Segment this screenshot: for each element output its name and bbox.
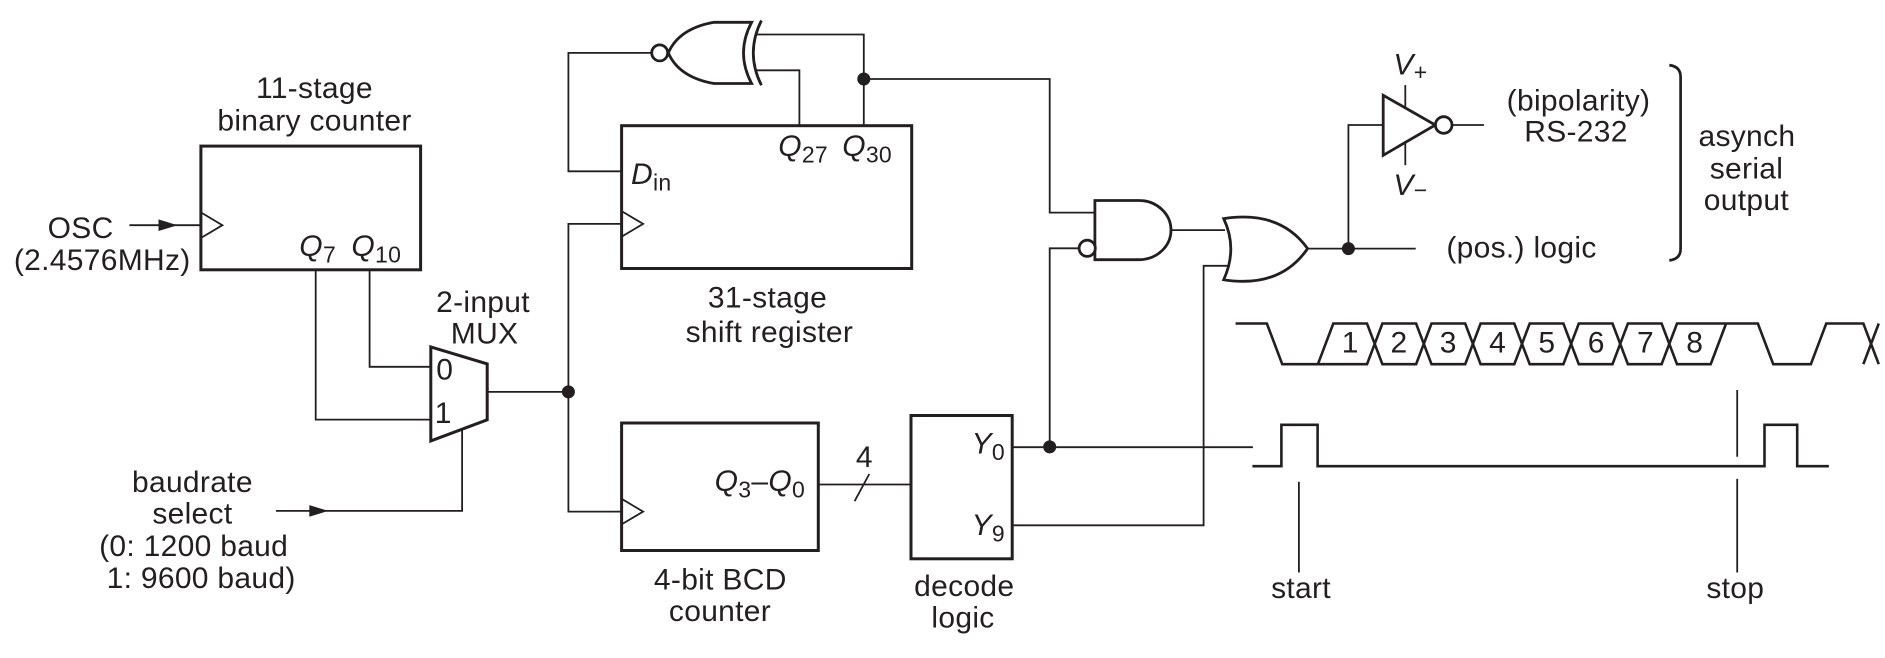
svg-text:RS-232: RS-232 bbox=[1524, 116, 1628, 149]
svg-text:logic: logic bbox=[931, 602, 994, 635]
svg-text:counter: counter bbox=[669, 595, 771, 628]
svg-text:decode: decode bbox=[914, 570, 1014, 603]
svg-text:1: 1 bbox=[435, 397, 452, 430]
svg-text:shift register: shift register bbox=[686, 316, 854, 349]
svg-text:11-stage: 11-stage bbox=[256, 72, 373, 105]
svg-text:6: 6 bbox=[1588, 327, 1605, 360]
svg-text:(pos.) logic: (pos.) logic bbox=[1446, 232, 1596, 265]
svg-text:MUX: MUX bbox=[451, 318, 519, 351]
svg-text:31-stage: 31-stage bbox=[708, 282, 827, 315]
svg-text:(bipolarity): (bipolarity) bbox=[1507, 85, 1651, 118]
svg-text:1: 1 bbox=[1342, 327, 1359, 360]
svg-text:2: 2 bbox=[1391, 327, 1408, 360]
svg-text:5: 5 bbox=[1538, 327, 1555, 360]
svg-text:select: select bbox=[152, 498, 233, 531]
svg-text:0: 0 bbox=[436, 354, 453, 387]
svg-text:stop: stop bbox=[1706, 572, 1764, 605]
svg-text:baudrate: baudrate bbox=[132, 466, 253, 499]
svg-text:output: output bbox=[1704, 184, 1790, 217]
svg-text:OSC: OSC bbox=[48, 212, 114, 245]
svg-text:(2.4576MHz): (2.4576MHz) bbox=[14, 244, 191, 277]
svg-text:3: 3 bbox=[1440, 327, 1457, 360]
svg-text:(0: 1200 baud: (0: 1200 baud bbox=[99, 530, 288, 563]
svg-text:7: 7 bbox=[1637, 327, 1654, 360]
svg-text:8: 8 bbox=[1686, 327, 1703, 360]
svg-text:start: start bbox=[1271, 572, 1331, 605]
svg-text:1: 9600 baud): 1: 9600 baud) bbox=[107, 562, 296, 595]
svg-text:asynch: asynch bbox=[1698, 120, 1795, 153]
svg-text:4: 4 bbox=[856, 441, 873, 474]
svg-text:4-bit BCD: 4-bit BCD bbox=[654, 564, 787, 597]
svg-text:4: 4 bbox=[1489, 327, 1506, 360]
svg-text:serial: serial bbox=[1710, 152, 1784, 185]
svg-text:binary counter: binary counter bbox=[217, 104, 411, 137]
svg-text:2-input: 2-input bbox=[436, 286, 530, 319]
svg-text:Q3–Q0: Q3–Q0 bbox=[715, 465, 805, 503]
